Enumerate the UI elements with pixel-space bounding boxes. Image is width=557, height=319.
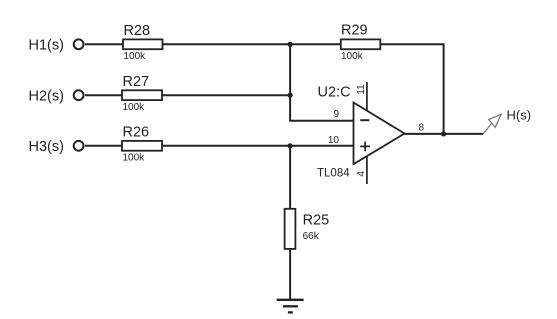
plus input mark [360, 145, 370, 147]
resistor R29 [341, 22, 381, 62]
svg-text:TL084: TL084 [317, 168, 350, 180]
power pin 4 [366, 156, 368, 184]
wire op-amp output [405, 133, 484, 135]
resistor R25 [285, 209, 330, 249]
junction output/feedback [441, 131, 446, 136]
svg-text:100k: 100k [123, 153, 146, 164]
svg-text:H3(s): H3(s) [29, 139, 64, 155]
resistor R26 [122, 125, 162, 164]
ground [277, 300, 304, 313]
wire H1 terminal to R28 [85, 43, 123, 45]
op-amp body [354, 103, 405, 165]
svg-text:4: 4 [356, 171, 367, 177]
svg-text:10: 10 [328, 135, 340, 146]
wire R25 to ground [289, 249, 291, 300]
svg-text:100k: 100k [124, 51, 147, 62]
svg-text:100k: 100k [341, 51, 364, 62]
svg-text:H2(s): H2(s) [29, 88, 64, 104]
svg-text:66k: 66k [303, 231, 320, 242]
op-amp U2:C [317, 82, 425, 184]
power pin 11 [366, 82, 368, 111]
svg-text:R26: R26 [123, 125, 150, 141]
wire R28 to R29 through node [163, 43, 341, 45]
resistor R27 [122, 74, 162, 113]
wire R27 to bus [162, 94, 290, 96]
junction H3/R25 [288, 143, 293, 148]
terminal H2 [74, 90, 84, 100]
wire summing bus vertical [290, 44, 353, 120]
svg-text:U2:C: U2:C [318, 85, 351, 101]
terminal H3 [74, 141, 84, 151]
svg-text:R25: R25 [303, 213, 330, 229]
svg-text:R28: R28 [124, 23, 151, 39]
svg-text:H1(s): H1(s) [29, 38, 64, 54]
svg-text:11: 11 [356, 84, 367, 95]
terminal H1 [74, 39, 84, 49]
junction H2/bus [288, 93, 293, 98]
wire R29 to output node [380, 44, 443, 134]
svg-text:H(s): H(s) [507, 107, 532, 122]
resistor R28 [123, 23, 163, 62]
wire H2 terminal to R27 [85, 94, 122, 96]
svg-text:9: 9 [333, 109, 339, 120]
svg-text:100k: 100k [123, 102, 146, 113]
wire R25 top [289, 146, 291, 209]
svg-text:R29: R29 [341, 22, 368, 38]
junction H1/bus [288, 42, 293, 47]
svg-text:R27: R27 [123, 74, 150, 90]
wire H3 terminal to R26 [85, 145, 122, 147]
wire R26 to op-amp pin 10 [162, 145, 354, 147]
svg-text:8: 8 [419, 123, 425, 134]
output port H(s) [483, 107, 531, 134]
minus input mark [360, 119, 369, 121]
